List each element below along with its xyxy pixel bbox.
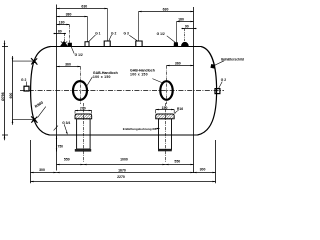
dim 380: [57, 16, 88, 18]
leg2 cap: [156, 114, 175, 119]
svg-text:180: 180: [59, 21, 65, 25]
leader G2 left: [25, 82, 28, 86]
leg2 foot: [158, 149, 172, 151]
svg-text:G 1/2: G 1/2: [75, 53, 83, 57]
svg-text:380: 380: [66, 13, 72, 17]
dim dia798: [2, 41, 8, 141]
svg-text:360: 360: [175, 61, 181, 65]
leg1 shaft: [77, 119, 91, 149]
svg-text:2270: 2270: [117, 175, 125, 179]
left dished head: [31, 47, 51, 136]
svg-text:200: 200: [80, 107, 86, 111]
nameplate: [210, 64, 215, 69]
X fitting upper left: [13, 58, 38, 64]
svg-text:300: 300: [200, 168, 206, 172]
svg-text:G 2: G 2: [111, 31, 116, 35]
svg-text:1670: 1670: [118, 169, 126, 173]
tank centerline: [20, 90, 224, 92]
svg-text:630: 630: [163, 8, 169, 12]
row1 dims: [57, 164, 194, 166]
svg-text:G 3: G 3: [124, 31, 129, 35]
leg1 foot: [75, 149, 91, 152]
dim 80: [54, 33, 67, 34]
dim 630 left: [57, 8, 108, 10]
leg1 centerline: [83, 103, 85, 163]
bottom ext left: [30, 140, 32, 183]
svg-text:R16: R16: [177, 107, 183, 111]
leader G1/2 left: [71, 47, 74, 54]
dim 180 right: [177, 21, 194, 23]
svg-text:300: 300: [39, 168, 45, 172]
X fitting lower left: [13, 116, 38, 122]
svg-text:150: 150: [162, 106, 168, 110]
leader R16: [175, 110, 179, 113]
svg-text:600: 600: [9, 93, 13, 99]
svg-text:Ø798: Ø798: [1, 92, 5, 101]
dim 360 left: [57, 66, 81, 68]
leader R800: [38, 107, 46, 118]
leader Behaelterschild: [214, 61, 224, 66]
svg-text:100 x 150: 100 x 150: [130, 72, 148, 76]
svg-text:630: 630: [81, 5, 87, 9]
leader GAB2: [152, 79, 162, 83]
svg-text:360: 360: [65, 63, 71, 67]
svg-text:90: 90: [185, 25, 189, 29]
svg-text:G 2: G 2: [21, 78, 26, 82]
weld seam right: [193, 7, 195, 173]
svg-text:750: 750: [58, 145, 64, 149]
manhole 1: [73, 81, 87, 100]
nozzle G3: [136, 12, 142, 47]
fitting B x69.8: [68, 25, 71, 46]
leader GAB1: [87, 77, 92, 86]
dim 360 right: [167, 65, 194, 67]
dim 600: [12, 56, 14, 125]
row2 dims: [31, 172, 216, 174]
leader G1: [88, 35, 95, 42]
dim 150: [156, 109, 175, 114]
svg-text:1000: 1000: [120, 158, 128, 162]
dome fitting: [182, 29, 189, 47]
svg-text:180: 180: [178, 18, 184, 22]
leader G2 top: [109, 35, 112, 41]
svg-text:R800: R800: [34, 101, 44, 109]
svg-text:G 2: G 2: [221, 78, 226, 82]
leader G3/4: [54, 124, 68, 134]
nozzle G2: [104, 9, 110, 47]
leg2 centerline: [165, 103, 167, 163]
right dished head: [198, 47, 217, 136]
G2 right square: [215, 89, 220, 94]
fitting A x64: [61, 34, 67, 47]
row3 dim: [31, 181, 216, 183]
fitting G1/2 right: [174, 22, 177, 47]
bottom ext right: [215, 140, 217, 183]
svg-text:Entlüftungsbohrung Ø8: Entlüftungsbohrung Ø8: [123, 127, 157, 131]
svg-text:G 1/2: G 1/2: [157, 32, 165, 36]
svg-text:G 1: G 1: [95, 31, 100, 35]
dim 180 left: [57, 24, 70, 26]
G2 left square: [24, 86, 29, 91]
leader G2 right: [219, 82, 223, 89]
dim 750: [56, 136, 57, 152]
leader G1/2 right: [167, 36, 175, 43]
leader Entlueftung: [156, 128, 159, 129]
svg-text:100 x 150: 100 x 150: [93, 75, 111, 79]
dim 90: [182, 28, 197, 29]
nozzle G1: [85, 17, 89, 47]
manhole 2: [160, 81, 172, 100]
leg1 cap: [75, 114, 92, 119]
svg-text:G 3/4: G 3/4: [62, 121, 70, 125]
svg-text:550: 550: [174, 160, 180, 164]
leg2 shaft: [159, 119, 172, 150]
tank top line: [51, 46, 202, 48]
svg-text:550: 550: [64, 157, 70, 161]
dim 630 right: [139, 11, 194, 13]
dim 200: [75, 110, 92, 114]
svg-text:Behälterschild: Behälterschild: [221, 57, 244, 61]
tank bottom line: [50, 134, 198, 136]
svg-text:80: 80: [58, 30, 62, 34]
weld seam left: [56, 5, 58, 171]
leader G3: [129, 35, 137, 41]
